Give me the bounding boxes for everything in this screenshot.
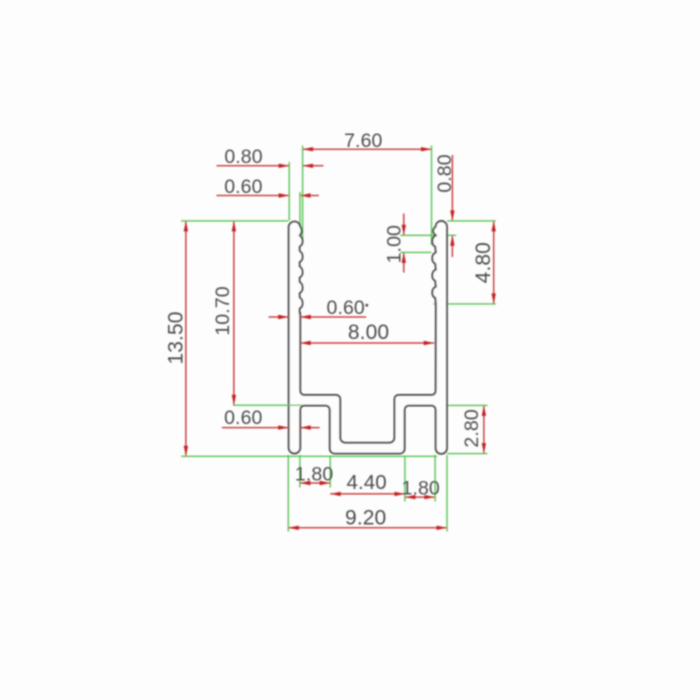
svg-text:0.80: 0.80	[224, 146, 262, 168]
svg-text:10.70: 10.70	[212, 286, 234, 335]
svg-text:1.80: 1.80	[295, 464, 333, 486]
svg-text:1.00: 1.00	[384, 225, 406, 263]
svg-text:4.40: 4.40	[346, 471, 386, 494]
svg-text:0.60: 0.60	[224, 407, 262, 429]
svg-text:0.80: 0.80	[434, 154, 456, 192]
svg-text:0.60: 0.60	[224, 176, 262, 198]
svg-text:2.80: 2.80	[461, 409, 483, 447]
svg-text:1.80: 1.80	[402, 477, 440, 499]
svg-text:9.20: 9.20	[345, 506, 386, 529]
svg-text:4.80: 4.80	[472, 242, 495, 283]
svg-text:8.00: 8.00	[348, 321, 389, 344]
svg-text:7.60: 7.60	[344, 130, 382, 152]
svg-text:13.50: 13.50	[164, 311, 187, 364]
svg-text:0.60: 0.60	[327, 297, 365, 319]
